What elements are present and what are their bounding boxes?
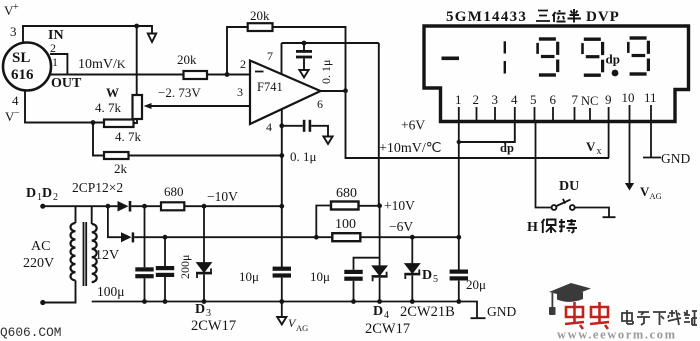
svg-text:200μ: 200μ <box>178 255 192 279</box>
svg-text:+6V: +6V <box>401 118 425 133</box>
svg-text:5: 5 <box>433 274 438 285</box>
feedback wire pin2 up and over <box>227 27 346 91</box>
label Vx <box>586 139 602 157</box>
svg-text:4: 4 <box>511 92 518 107</box>
minus sign pin2 <box>255 71 264 73</box>
node dp joins pin1 <box>457 140 461 144</box>
svg-text:680: 680 <box>336 186 357 201</box>
label D4 <box>373 304 389 321</box>
AC input top terminal <box>40 204 45 209</box>
wire -6V rail right <box>360 236 458 238</box>
node 680-2 drop junction <box>314 235 319 240</box>
svg-text:2CW21B: 2CW21B <box>400 304 455 320</box>
label V- <box>5 108 20 124</box>
label Vag pin10 <box>640 184 662 201</box>
glyph chi <box>559 219 577 233</box>
svg-text:+: + <box>13 2 19 13</box>
svg-text:3: 3 <box>492 92 499 107</box>
switch DU contacts and blade <box>552 199 575 210</box>
sensor U SL616 <box>3 43 51 91</box>
svg-text:D: D <box>422 268 432 283</box>
node output junction <box>343 88 348 93</box>
wire +10V column down <box>379 206 381 266</box>
svg-text:H: H <box>527 220 538 235</box>
resistor 20k feedback <box>248 23 273 31</box>
ground rail <box>92 302 486 319</box>
label Vag bottom <box>288 316 308 333</box>
pin2/pin1 bracket wires <box>50 54 67 75</box>
wire pin7 +V row <box>282 42 379 44</box>
wire 2k to op-amp pin4 column <box>129 155 283 157</box>
svg-text:6: 6 <box>317 97 323 111</box>
svg-text:2: 2 <box>240 57 246 71</box>
svg-text:2: 2 <box>50 41 56 55</box>
AC bottom terminal and wire <box>40 280 75 305</box>
svg-text:9: 9 <box>605 92 612 107</box>
wire +6V column pin7 <box>378 43 380 206</box>
svg-text:100: 100 <box>335 217 356 232</box>
svg-text:20k: 20k <box>250 8 270 23</box>
wire AC top to rectifier node <box>43 205 108 207</box>
svg-text:7: 7 <box>572 92 579 107</box>
svg-text:10μ: 10μ <box>239 269 259 284</box>
svg-text:616: 616 <box>11 67 34 83</box>
svg-text:OUT: OUT <box>51 76 82 91</box>
zener D5 <box>404 237 420 301</box>
svg-text:www.eeworm.com: www.eeworm.com <box>557 328 677 341</box>
svg-text:4: 4 <box>12 93 19 108</box>
title glyph san <box>536 11 550 22</box>
svg-text:dp: dp <box>500 141 514 155</box>
display digit 9 b <box>581 38 604 77</box>
wire -10V rail <box>184 205 281 207</box>
svg-text:3: 3 <box>10 24 17 39</box>
title glyph ban <box>568 9 582 23</box>
svg-text:W: W <box>106 85 119 100</box>
eeworm logo site name glyphs <box>622 310 697 325</box>
svg-text:GND: GND <box>661 151 690 166</box>
display digit 9 a <box>536 37 559 76</box>
Vag arrow under 0.1u-2 <box>323 137 332 144</box>
svg-text:3: 3 <box>237 85 243 99</box>
svg-text:1: 1 <box>52 55 58 69</box>
resistor 2k <box>104 152 129 159</box>
svg-text:−10V: −10V <box>207 189 238 204</box>
pin9 lead Vx <box>608 122 610 159</box>
label dp and decimal dot <box>606 52 620 77</box>
svg-text:1: 1 <box>455 92 462 107</box>
wire switch to hold terminal <box>575 208 616 218</box>
svg-text:2CW17: 2CW17 <box>191 318 236 334</box>
svg-text:Q606.COM: Q606.COM <box>0 325 61 340</box>
svg-text:AG: AG <box>296 323 308 333</box>
svg-text:dp: dp <box>606 52 620 67</box>
svg-text:D: D <box>42 186 52 201</box>
secondary top drop <box>91 206 93 224</box>
wire OUT to 20k input resistor <box>67 74 183 76</box>
svg-text:V: V <box>640 184 650 199</box>
capacitor 0.1u bypass <box>296 43 312 70</box>
label D1 D2 <box>26 186 58 203</box>
eeworm logo graduation cap <box>549 283 591 315</box>
pin1 lead down <box>458 122 460 302</box>
pot wiper arrow and wire to pin3 <box>144 103 251 109</box>
op-amp pin labels <box>237 49 323 134</box>
svg-text:AC: AC <box>31 239 50 254</box>
node 2k branch <box>91 120 96 125</box>
DVM pin numbers <box>455 90 657 108</box>
svg-text:D: D <box>195 302 205 317</box>
svg-text:20k: 20k <box>177 52 197 67</box>
svg-text:11: 11 <box>644 90 657 105</box>
wire 20k to op-amp pin2 <box>207 74 250 76</box>
svg-text:AG: AG <box>650 191 662 201</box>
transformer T primary winding <box>70 223 75 280</box>
capacitor 100u <box>135 206 153 301</box>
svg-text:2CW17: 2CW17 <box>365 321 410 337</box>
svg-text:2: 2 <box>473 92 480 107</box>
svg-text:5: 5 <box>530 92 537 107</box>
node pin1 -6V junction <box>456 235 461 240</box>
zener D3 <box>196 206 212 301</box>
svg-text:4: 4 <box>266 120 272 134</box>
diode D2 <box>121 232 134 242</box>
resistor 680 first <box>161 202 184 210</box>
svg-text:10mV/K: 10mV/K <box>78 57 126 72</box>
svg-text:4. 7k: 4. 7k <box>115 129 142 144</box>
wire -6V rail left <box>134 236 332 238</box>
wire SL616 pin4 row <box>25 91 104 123</box>
node op-amp pin4 to rail <box>279 204 284 209</box>
title glyph wei <box>553 10 566 22</box>
node bypass cap junction <box>302 41 307 46</box>
svg-text:SL: SL <box>12 50 30 66</box>
svg-text:7: 7 <box>267 49 273 63</box>
V+ arrow terminal <box>148 34 156 43</box>
svg-text:10: 10 <box>622 90 635 105</box>
svg-text:−: − <box>14 108 20 119</box>
svg-text:D: D <box>26 186 36 201</box>
svg-text:F741: F741 <box>257 80 283 94</box>
wire dp from pin4 <box>459 122 515 143</box>
primary top drop <box>75 206 77 223</box>
svg-text:D: D <box>373 304 383 319</box>
pin10 lead to Vag <box>629 122 631 184</box>
node pot-top junction <box>134 24 139 29</box>
Vag arrow under bypass cap <box>299 70 308 77</box>
svg-text:−6V: −6V <box>389 219 413 234</box>
label D5 <box>422 268 438 285</box>
wire pin3 to node A <box>23 26 152 42</box>
svg-text:GND: GND <box>487 304 516 319</box>
capacitor 10u first on pin4 column <box>273 267 291 302</box>
svg-text:DVP: DVP <box>586 9 620 25</box>
DVM module 5G14433 outline <box>424 26 689 122</box>
node pin2 junction <box>225 72 230 77</box>
wire op-amp output <box>321 90 346 92</box>
pin7 lead <box>281 43 283 74</box>
svg-text:2CP12×2: 2CP12×2 <box>72 180 123 195</box>
svg-text:x: x <box>597 146 602 157</box>
svg-text:10μ: 10μ <box>310 269 330 284</box>
svg-text:5GM14433: 5GM14433 <box>446 9 527 25</box>
node 200u junction <box>163 235 168 240</box>
node D3 junction <box>202 204 207 209</box>
pin11 lead to GND <box>643 122 661 158</box>
DVM pin stubs inside package <box>459 105 651 122</box>
potentiometer W 4.7k <box>133 95 143 119</box>
glyph bao <box>542 219 557 233</box>
svg-text:+10V: +10V <box>384 198 415 213</box>
svg-text:+10mV/℃: +10mV/℃ <box>379 141 442 156</box>
eeworm logo chongchong red glyphs <box>565 302 609 329</box>
label V+ supply <box>4 2 19 18</box>
transformer T secondary winding <box>92 224 97 282</box>
wire 4.7k to pot bottom <box>134 119 138 123</box>
capacitor 0.1u pin4 <box>282 120 328 137</box>
ground rail junction nodes <box>142 299 461 304</box>
pin4 lead down <box>281 110 283 267</box>
Vag arrow below ground rail <box>277 302 286 325</box>
label D3 <box>195 302 211 319</box>
transformer core <box>84 222 87 286</box>
svg-text:20μ: 20μ <box>466 277 486 292</box>
resistor 20k input <box>184 71 208 79</box>
node 2k junction <box>279 153 284 158</box>
Vag filled arrow pin10 <box>625 183 634 191</box>
svg-text:NC: NC <box>581 94 598 108</box>
capacitor 10u second <box>344 270 362 302</box>
node rectifier split <box>106 204 111 209</box>
svg-text:6: 6 <box>550 92 557 107</box>
svg-text:12V: 12V <box>95 248 119 263</box>
diode D1 <box>108 201 161 212</box>
display minus sign <box>442 57 460 61</box>
svg-text:100μ: 100μ <box>97 284 125 299</box>
svg-text:4. 7k: 4. 7k <box>95 100 122 115</box>
zener D4 <box>372 266 388 301</box>
wire node A down to pot top <box>136 26 138 95</box>
wire D2 branch down <box>108 206 121 237</box>
capacitor 20u on pin1 column <box>450 270 468 281</box>
node 100u junction <box>142 204 147 209</box>
svg-text:DU: DU <box>559 179 579 194</box>
svg-text:2: 2 <box>53 192 58 203</box>
resistor 4.7k series <box>104 120 134 128</box>
resistor 680 second <box>316 202 379 238</box>
wire output down to +10mV row <box>346 91 610 158</box>
svg-text:0. 1μ: 0. 1μ <box>319 60 333 84</box>
label AC 220V <box>23 239 54 271</box>
svg-text:220V: 220V <box>23 256 54 271</box>
wire down to 2k <box>93 123 104 156</box>
op-amp U1 F741 <box>250 61 321 125</box>
node D5 junction <box>410 235 415 240</box>
svg-text:680: 680 <box>164 184 184 199</box>
display digit 9 c <box>627 36 650 75</box>
svg-text:4: 4 <box>384 310 389 321</box>
node +10V <box>377 203 382 208</box>
resistor 100 <box>332 233 360 241</box>
svg-text:V: V <box>586 139 596 154</box>
svg-text:2k: 2k <box>114 161 128 176</box>
pin5 lead to DU switch <box>536 122 552 208</box>
capacitor 200u <box>156 237 174 301</box>
svg-text:−2. 73V: −2. 73V <box>158 85 201 100</box>
svg-text:0. 1μ: 0. 1μ <box>290 149 317 164</box>
wire branch to 10u-2 <box>354 258 380 270</box>
display half digit 1 <box>504 41 506 73</box>
node 0.1u-2 junction <box>279 123 284 128</box>
